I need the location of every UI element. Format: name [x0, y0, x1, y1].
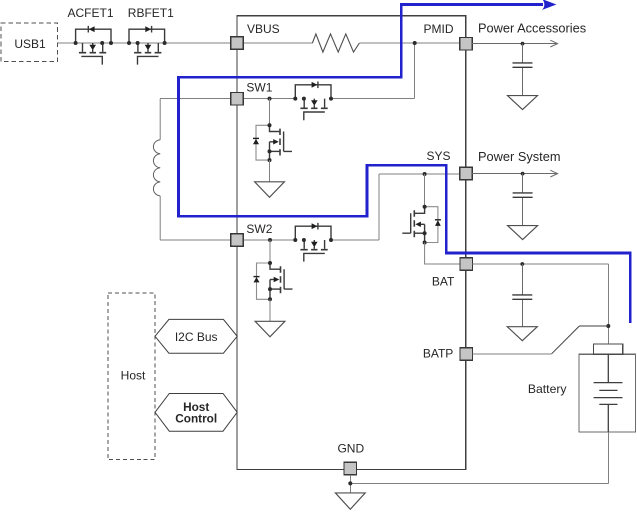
- wire to ground SW2: [269, 299, 271, 321]
- node PMID junction: [413, 41, 417, 45]
- wire USB1 to VBUS pin: [58, 42, 231, 44]
- Host Control port: [155, 394, 237, 432]
- I2C Bus port: [155, 319, 237, 353]
- transistor RBFET1: [129, 26, 165, 65]
- ground (C3): [507, 327, 537, 341]
- wire SW1 pin to FETs: [243, 98, 295, 100]
- svg-text:GND: GND: [337, 441, 364, 455]
- switch (battery disconnect): [552, 326, 580, 354]
- svg-text:SW2: SW2: [246, 222, 272, 236]
- wire to ground SW1: [269, 160, 271, 182]
- blue arrowhead: [542, 0, 557, 10]
- capacitor C1 (PMID): [522, 44, 524, 63]
- wire BATFET to BAT pin: [425, 243, 460, 265]
- resistor (VBUS to PMID): [312, 34, 359, 52]
- battery positive terminal: [593, 344, 622, 354]
- svg-text:PMID: PMID: [424, 22, 454, 36]
- ground (C1): [508, 96, 538, 110]
- node BAT cap junction: [520, 262, 524, 266]
- node battery positive: [606, 324, 610, 328]
- inductor L1: [159, 99, 161, 240]
- node SYS junction: [423, 172, 427, 176]
- pin VBUS: [231, 37, 244, 50]
- pin GND: [344, 462, 357, 475]
- svg-text:Control: Control: [175, 412, 217, 426]
- wire SW1 pin to inductor: [160, 98, 231, 100]
- node SYS cap junction: [521, 172, 525, 176]
- svg-text:BATP: BATP: [423, 346, 453, 360]
- wire battery negative to ground bus: [607, 432, 609, 484]
- svg-text:ACFET1: ACFET1: [67, 6, 113, 20]
- wire BAT down to battery positive: [607, 264, 609, 344]
- capacitor C3 (BAT): [521, 264, 523, 294]
- transistor ACFET1: [76, 26, 111, 65]
- svg-text:I2C Bus: I2C Bus: [175, 330, 218, 344]
- ground (SW2 low-side): [255, 321, 285, 337]
- wire PMID to Power Accessories: [472, 43, 557, 45]
- wire ground bus: [350, 482, 608, 484]
- wire SYS to BATFET: [424, 174, 426, 207]
- wire SYS to Power System: [472, 173, 557, 175]
- node GND junction: [348, 481, 352, 485]
- pin SYS: [460, 167, 473, 180]
- pin SW2: [231, 234, 244, 247]
- wire resistor to PMID pin: [359, 42, 459, 44]
- ground (C2): [508, 226, 538, 240]
- svg-text:Power Accessories: Power Accessories: [478, 20, 586, 35]
- svg-text:SYS: SYS: [426, 149, 450, 163]
- capacitor C2 (SYS): [522, 174, 524, 193]
- wire BATP pin to switch: [473, 353, 552, 355]
- Host box: [108, 293, 155, 460]
- svg-text:Battery: Battery: [528, 382, 568, 396]
- ground (SW1 low-side): [255, 182, 285, 198]
- USB1 connector box: [1, 23, 58, 62]
- wire PMID net down to SW1 FET: [414, 43, 416, 99]
- pin BATP: [460, 348, 473, 361]
- svg-text:BAT: BAT: [432, 274, 455, 288]
- svg-text:VBUS: VBUS: [247, 22, 280, 36]
- wire SW2 node down to low-side FET: [269, 240, 271, 263]
- pin BAT: [460, 258, 473, 271]
- svg-text:Power System: Power System: [478, 149, 561, 164]
- pin SW1: [231, 92, 244, 105]
- battery cell box: [579, 354, 636, 432]
- wire inductor to SW2 pin: [160, 239, 231, 241]
- transistor BATFET: [402, 205, 441, 245]
- svg-text:SW1: SW1: [246, 81, 272, 95]
- IC box U1 outline: [237, 16, 466, 470]
- svg-text:Host: Host: [121, 369, 146, 383]
- wire SW1 node down to low-side FET: [269, 99, 271, 126]
- transistor Q3 (SW2 high-side): [295, 223, 331, 262]
- wire GND pin stub: [349, 475, 351, 493]
- wire BAT net to battery: [473, 263, 609, 265]
- battery cells: [594, 354, 623, 432]
- node SW1 junction: [268, 97, 272, 101]
- svg-text:RBFET1: RBFET1: [128, 6, 174, 20]
- svg-text:USB1: USB1: [14, 37, 46, 51]
- transistor Q2 (SW1 low-side): [253, 123, 292, 162]
- pin PMID: [460, 37, 473, 50]
- ground (main): [335, 493, 365, 509]
- transistor Q4 (SW2 low-side): [254, 261, 293, 301]
- blue current path: [179, 5, 631, 324]
- wire SW2 FET up to SYS net: [378, 174, 380, 240]
- wire VBUS to resistor: [243, 42, 312, 44]
- wire SYS net: [379, 173, 460, 175]
- transistor Q1 (SW1 high-side): [295, 82, 331, 121]
- wire SW2 pin to FETs: [243, 239, 295, 241]
- node PMID cap junction: [521, 42, 525, 46]
- node SW2 junction: [268, 238, 272, 242]
